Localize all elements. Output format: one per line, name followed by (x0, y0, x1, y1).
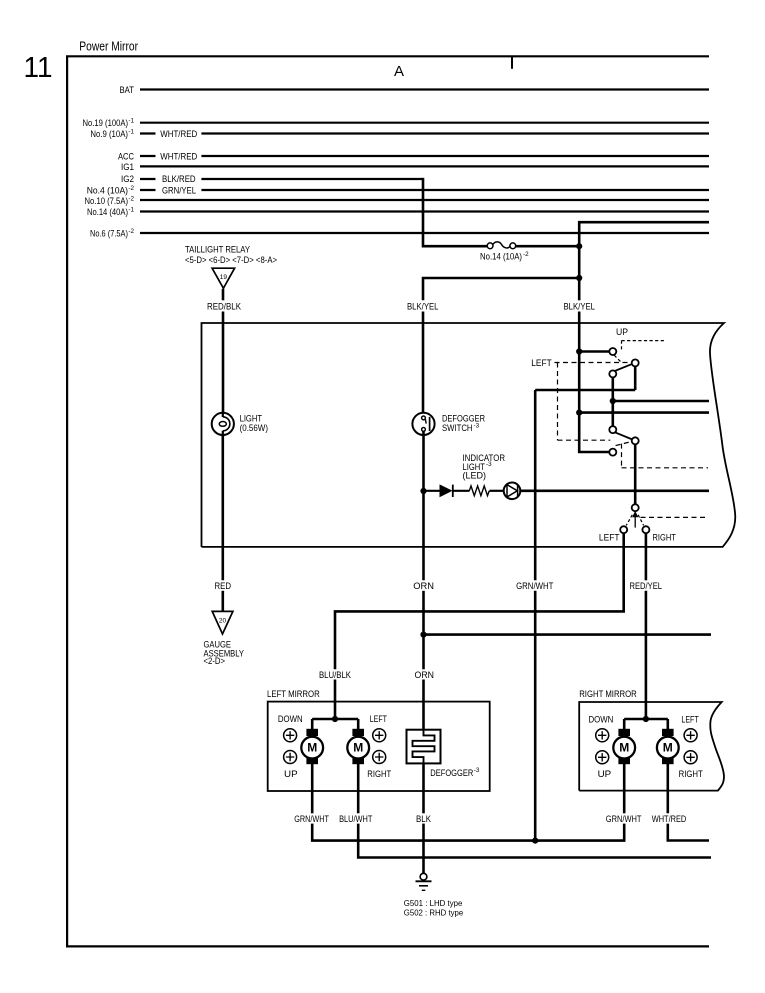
gauge assembly connector 20 (204, 611, 245, 666)
contact E left/right switch common (632, 437, 639, 444)
power mirror switch box outline (torn right edge) (202, 323, 736, 547)
svg-text:LEFT: LEFT (681, 714, 699, 724)
motor M right-mirror up/down (613, 729, 635, 764)
wire diode to resistor (453, 490, 470, 492)
svg-text:GRN/WHT: GRN/WHT (606, 814, 642, 824)
wire contact B down to y390 (634, 366, 637, 390)
svg-text:G501 : LHD type: G501 : LHD type (404, 898, 463, 908)
node BLK/YEL at y351 (576, 348, 582, 354)
svg-text:-2: -2 (523, 251, 529, 258)
svg-text:M: M (619, 741, 629, 755)
wire relay to RED/BLK (222, 289, 225, 301)
svg-text:BLU/BLK: BLU/BLK (319, 670, 351, 680)
svg-text:WHT/RED: WHT/RED (160, 152, 197, 162)
wire node down with branch junction (578, 246, 581, 300)
svg-text:RIGHT MIRROR: RIGHT MIRROR (579, 689, 637, 699)
svg-text:GRN/WHT: GRN/WHT (294, 814, 329, 824)
wire No.9 (10A) WHT/RED bus (90, 129, 709, 140)
contact A up/down switch upper (609, 348, 616, 355)
svg-text:DOWN: DOWN (278, 714, 303, 724)
wire IG1 bus (121, 162, 709, 172)
labels left mirror (278, 714, 392, 779)
wire WHT/RED right mirror motor down (652, 764, 687, 824)
svg-text:-2: -2 (128, 228, 134, 235)
svg-text:-3: -3 (486, 461, 492, 468)
svg-text:WHT/RED: WHT/RED (160, 129, 197, 139)
LED indicator light (463, 453, 521, 499)
wire GRN/WHT right mirror motor down (606, 764, 642, 824)
wire resistor to LED (490, 490, 504, 492)
contact D left/right switch upper (609, 426, 616, 433)
svg-text:UP: UP (284, 769, 298, 779)
wire node to diode (424, 490, 441, 492)
svg-text:19: 19 (220, 274, 228, 281)
svg-text:-1: -1 (128, 129, 134, 136)
wire defogger switch down to indicator node (422, 431, 425, 491)
svg-text:No.19 (100A): No.19 (100A) (83, 118, 129, 128)
selector arrow (626, 511, 643, 528)
svg-text:<5-D> <6-D> <7-D> <8-A>: <5-D> <6-D> <7-D> <8-A> (185, 255, 277, 265)
wire BLK defogger down (416, 763, 431, 823)
contact F left/right switch lower (609, 449, 616, 456)
svg-text:No.10 (7.5A): No.10 (7.5A) (85, 196, 129, 206)
resistor indicator (469, 486, 489, 496)
node RED/YEL branch in right mirror (643, 716, 649, 722)
svg-text:LEFT: LEFT (370, 714, 388, 724)
svg-text:No.6 (7.5A): No.6 (7.5A) (90, 229, 128, 239)
node ORN branch (420, 632, 426, 638)
svg-text:BLK/RED: BLK/RED (162, 174, 196, 184)
contact B up/down switch common (632, 359, 639, 366)
svg-text:11: 11 (24, 52, 53, 84)
wire branch left at y278 (423, 278, 579, 300)
wire No.10 (7.5A) bus (85, 196, 710, 207)
contact RIGHT selector (642, 526, 649, 533)
svg-text:RED/YEL: RED/YEL (630, 581, 663, 591)
wire node to contact A (579, 350, 609, 353)
wire fuse to node (516, 245, 580, 248)
dashed LEFT linkage (555, 363, 709, 468)
wire y401 to torn edge (613, 400, 709, 403)
svg-text:(0.56W): (0.56W) (240, 423, 268, 433)
svg-text:DEFOGGER: DEFOGGER (430, 768, 473, 778)
svg-text:SWITCH: SWITCH (442, 423, 473, 433)
left mirror box (267, 689, 490, 791)
svg-text:RIGHT: RIGHT (679, 769, 704, 779)
svg-text:BLK/YEL: BLK/YEL (564, 302, 596, 312)
svg-text:RED/BLK: RED/BLK (207, 302, 241, 312)
svg-text:UP: UP (616, 327, 628, 337)
svg-text:UP: UP (598, 769, 612, 779)
svg-text:No.9 (10A): No.9 (10A) (90, 129, 128, 139)
wire branch to both motors (312, 719, 358, 729)
svg-text:LIGHT: LIGHT (240, 413, 263, 423)
svg-text:-3: -3 (474, 423, 480, 430)
svg-text:No.14 (40A): No.14 (40A) (87, 207, 128, 217)
wire y412 to torn edge (579, 411, 709, 414)
svg-text:M: M (353, 741, 363, 755)
svg-text:-1: -1 (128, 207, 134, 214)
wire RED/BLK label segment (207, 302, 241, 413)
lamp LIGHT (0.56W) (212, 413, 268, 435)
svg-text:BLK: BLK (416, 814, 431, 824)
lever left/right switch (615, 432, 632, 439)
svg-text:RED: RED (215, 581, 232, 591)
svg-text:(LED): (LED) (463, 470, 487, 480)
svg-text:IG1: IG1 (121, 162, 134, 172)
wire No.6 (7.5A) bus (90, 228, 709, 239)
wire BLU/WHT bottom run (358, 824, 711, 858)
svg-text:G502 : RHD type: G502 : RHD type (404, 908, 464, 918)
svg-text:M: M (307, 741, 317, 755)
wire ACC WHT/RED bus (118, 152, 709, 162)
svg-text:A: A (394, 63, 404, 80)
wire BLK/YEL left label segment (407, 302, 439, 413)
wire LED to torn edge (520, 489, 709, 492)
wire BLK to ground (422, 824, 425, 874)
svg-text:No.4 (10A): No.4 (10A) (87, 186, 128, 196)
node BLU/BLK branch in left mirror (332, 716, 338, 722)
right mirror box (torn right edge) (579, 689, 724, 791)
lever up/down switch (611, 364, 632, 373)
wire WHT/RED bottom run (668, 824, 709, 841)
svg-text:LEFT: LEFT (599, 533, 620, 543)
wire RED/YEL from RIGHT contact down (630, 533, 663, 719)
dashed UP linkage (614, 341, 664, 363)
svg-text:ACC: ACC (118, 152, 134, 162)
wire branch to both right motors (624, 719, 668, 729)
fuse No.14 (10A)-2 (480, 242, 529, 262)
wire No.14 (40A) bus (87, 207, 709, 218)
node GRN/WHT joins bottom run (532, 838, 538, 844)
svg-text:BLK/YEL: BLK/YEL (407, 302, 439, 312)
svg-text:LEFT MIRROR: LEFT MIRROR (267, 689, 320, 699)
polarity marks right mirror (596, 729, 697, 764)
wire BLK/YEL right label segment (564, 302, 596, 352)
svg-text:ORN: ORN (415, 670, 435, 680)
wire IG2 BLK/RED bus (121, 174, 423, 184)
taillight relay connector 19 (185, 244, 277, 288)
node branch at y278 (576, 275, 582, 281)
wire GRN/WHT left mirror motor down (294, 764, 329, 824)
node indicator branch (420, 488, 426, 494)
wire IG2 drop to fuse (423, 178, 487, 246)
svg-text:IG2: IG2 (121, 174, 134, 184)
svg-text:GRN/YEL: GRN/YEL (162, 186, 196, 196)
motor M right-mirror left/right (657, 729, 679, 764)
node BLK/YEL at y412 (576, 410, 582, 416)
svg-text:ORN: ORN (413, 581, 434, 591)
svg-text:TAILLIGHT RELAY: TAILLIGHT RELAY (185, 244, 250, 254)
wire LEFT contact to BLU/BLK (319, 533, 624, 719)
wire BLU/WHT left mirror motor down (339, 764, 373, 824)
svg-text:LEFT: LEFT (531, 358, 552, 368)
border frame (67, 56, 709, 946)
wire ORN to left mirror defogger (415, 635, 435, 730)
svg-text:20: 20 (219, 617, 227, 624)
defogger element left mirror (407, 730, 480, 778)
wire GRN/WHT from switch down (516, 390, 554, 841)
wire ORN from indicator node down (413, 491, 434, 635)
dashed selector linkage to torn edge (641, 516, 709, 518)
wire No.4 (10A) GRN/YEL bus (87, 185, 709, 196)
labels right mirror (589, 714, 704, 779)
wire y390 to GRN/WHT (535, 389, 635, 392)
tick mark on top border (511, 56, 513, 69)
svg-text:-2: -2 (128, 185, 134, 192)
polarity marks left mirror (284, 729, 386, 764)
svg-text:<2-D>: <2-D> (204, 656, 226, 666)
wire contact E down to selector (634, 444, 637, 504)
wire BLK/YEL down to contact F (579, 413, 609, 452)
wire contact C down to contact D (611, 377, 614, 426)
switch DEFOGGER SWITCH (412, 413, 485, 435)
wire node up to bus y222 (579, 222, 709, 246)
wire No.19 (100A) bus (83, 118, 710, 129)
svg-text:BAT: BAT (120, 85, 135, 95)
wire GRN/WHT bottom run joining both mirrors (312, 824, 624, 841)
svg-text:No.14 (10A): No.14 (10A) (480, 252, 522, 262)
svg-text:RIGHT: RIGHT (367, 769, 391, 779)
svg-text:GRN/WHT: GRN/WHT (516, 581, 554, 591)
svg-text:M: M (663, 741, 673, 755)
svg-text:WHT/RED: WHT/RED (652, 814, 687, 824)
wire RED from light to gauge (215, 435, 232, 612)
svg-text:RIGHT: RIGHT (653, 533, 677, 543)
contact LEFT selector (620, 526, 627, 533)
svg-text:BLU/WHT: BLU/WHT (339, 814, 373, 824)
svg-text:Power Mirror: Power Mirror (79, 38, 138, 53)
diode indicator (440, 485, 453, 497)
ground G501/G502 (404, 873, 464, 917)
wire ORN branch right (424, 633, 712, 636)
contact C up/down switch lower (609, 370, 616, 377)
motor M left-mirror left/right (347, 729, 369, 764)
motor M left-mirror up/down (301, 729, 323, 764)
node fuse output junction (576, 243, 582, 249)
svg-text:DOWN: DOWN (589, 714, 614, 724)
node at y401 (610, 398, 616, 404)
svg-text:-3: -3 (474, 767, 480, 774)
svg-text:-2: -2 (128, 196, 134, 203)
wire BAT bus (120, 85, 710, 95)
contact G selector common (632, 504, 639, 511)
wire BLK/YEL vertical continues (578, 352, 581, 413)
svg-text:-1: -1 (128, 118, 134, 125)
